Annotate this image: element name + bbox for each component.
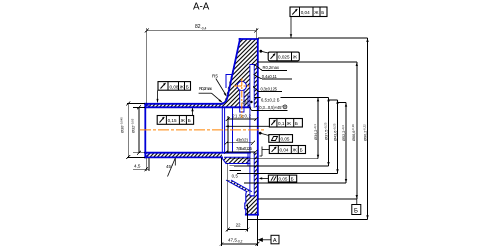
svg-text:Б: Б xyxy=(321,10,324,15)
svg-text:R0,2max: R0,2max xyxy=(263,65,280,70)
svg-text:45°: 45° xyxy=(166,164,173,169)
svg-text:0,025: 0,025 xyxy=(278,55,290,60)
svg-text:Ж: Ж xyxy=(314,10,319,15)
svg-text:0,1: 0,1 xyxy=(278,121,285,126)
svg-text:4,5: 4,5 xyxy=(134,163,141,168)
svg-text:0,3±0,125: 0,3±0,125 xyxy=(261,86,278,91)
svg-text:0,05: 0,05 xyxy=(279,176,288,181)
svg-text:0,05: 0,05 xyxy=(281,137,290,142)
svg-text:Ж: Ж xyxy=(287,121,292,126)
svg-text:A-A: A-A xyxy=(193,2,210,13)
svg-text:Б: Б xyxy=(295,121,298,126)
svg-text:22: 22 xyxy=(236,222,241,227)
svg-text:(0,3...0,5)×45°: (0,3...0,5)×45° xyxy=(258,105,283,110)
svg-text:45°: 45° xyxy=(242,100,249,105)
svg-text:Б: Б xyxy=(354,209,358,215)
svg-text:21,5±0,2: 21,5±0,2 xyxy=(232,113,251,118)
svg-text:A: A xyxy=(273,238,277,244)
svg-text:R0,2max: R0,2max xyxy=(199,86,213,91)
svg-text:Б: Б xyxy=(291,176,294,181)
svg-text:0,15: 0,15 xyxy=(168,118,177,123)
svg-text:Ж: Ж xyxy=(180,84,185,89)
svg-text:43±0,21: 43±0,21 xyxy=(236,137,249,142)
svg-text:7,65±0,125: 7,65±0,125 xyxy=(236,146,253,151)
svg-text:0,04: 0,04 xyxy=(280,148,289,153)
svg-text:0,4±0,11: 0,4±0,11 xyxy=(262,74,278,79)
svg-text:Ж: Ж xyxy=(181,118,186,123)
svg-text:R5: R5 xyxy=(212,74,218,79)
svg-text:6,5±0,2 Б: 6,5±0,2 Б xyxy=(261,97,280,102)
svg-text:0,08: 0,08 xyxy=(170,84,179,89)
svg-text:0,04: 0,04 xyxy=(301,10,310,15)
svg-text:Б: Б xyxy=(300,148,303,153)
svg-text:Б: Б xyxy=(188,118,191,123)
svg-text:Б: Б xyxy=(186,84,189,89)
svg-text:Ж: Ж xyxy=(293,55,298,60)
svg-text:0,5: 0,5 xyxy=(232,173,239,178)
